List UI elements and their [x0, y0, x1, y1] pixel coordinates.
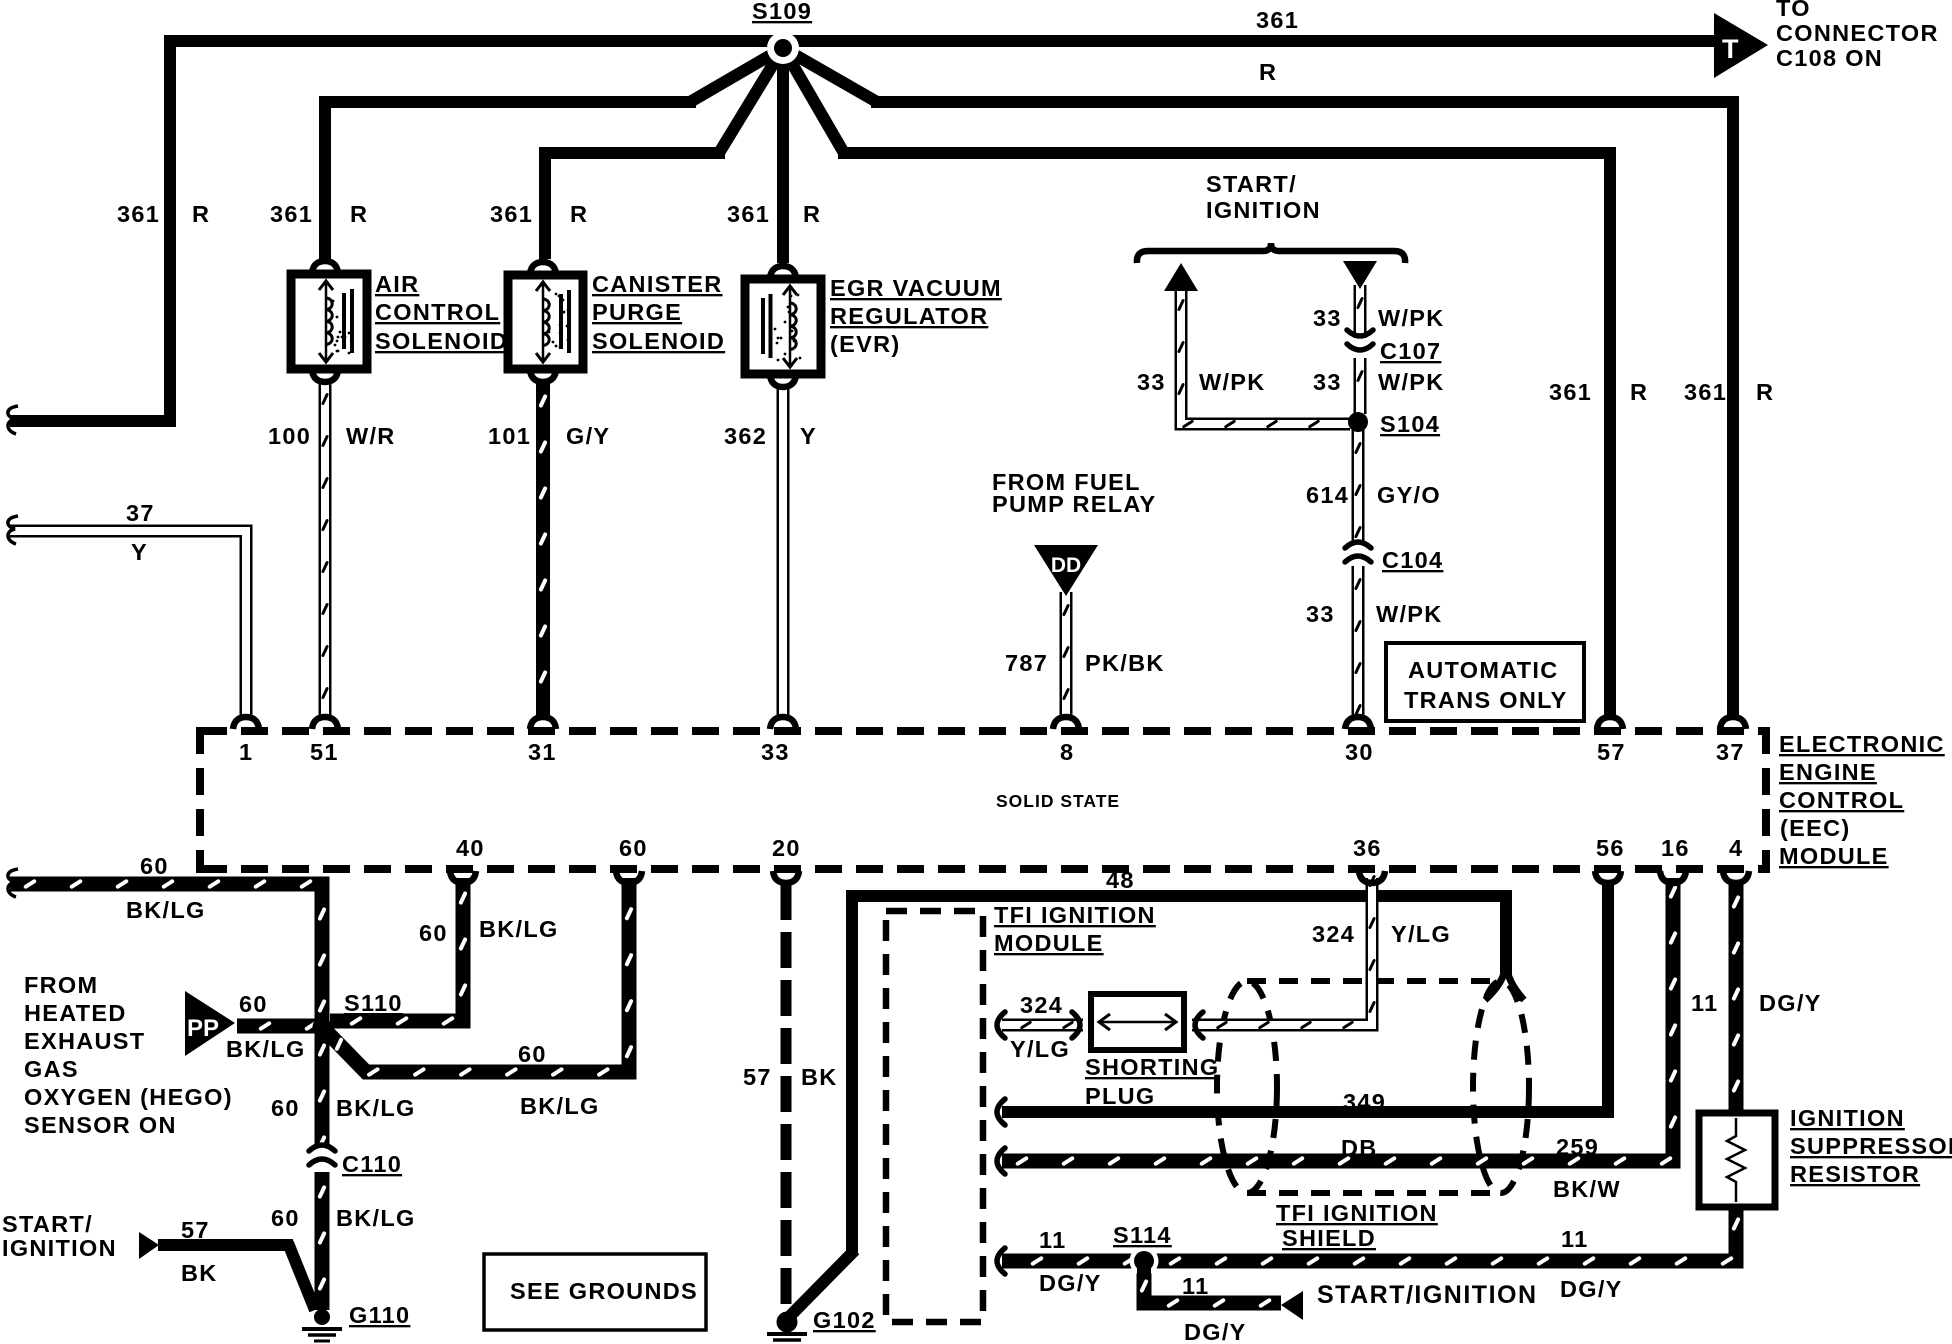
svg-text:Y: Y: [800, 423, 817, 449]
svg-text:R: R: [803, 201, 821, 227]
start/ignition arrow (bottom right): [1281, 1291, 1303, 1320]
wire 60 BK/LG from HEGO arrow PP to S110: [237, 1021, 318, 1032]
EEC pin 33 connector cup: [770, 717, 796, 729]
svg-text:DG/Y: DG/Y: [1560, 1276, 1623, 1302]
svg-text:AIR: AIR: [375, 271, 419, 297]
start/ignition arrow (bottom left): [139, 1232, 159, 1259]
svg-text:SHIELD: SHIELD: [1282, 1225, 1376, 1251]
svg-text:60: 60: [271, 1095, 300, 1121]
EEC pin 1 connector cup: [233, 717, 259, 729]
svg-text:DG/Y: DG/Y: [1039, 1270, 1102, 1296]
svg-text:361: 361: [270, 201, 313, 227]
wire 33 W/PK start/ignition to S104: [1177, 287, 1350, 429]
svg-text:DB: DB: [1341, 1135, 1378, 1161]
wire 324 Y/LG shorting plug to EEC pin 36: [1192, 874, 1376, 1029]
wire 361 R to air control solenoid: [690, 48, 783, 102]
svg-text:S104: S104: [1380, 411, 1440, 437]
svg-text:CONNECTOR: CONNECTOR: [1776, 20, 1939, 46]
EEC pin 8 connector cup: [1053, 717, 1079, 729]
svg-text:36: 36: [1353, 835, 1382, 861]
svg-text:361: 361: [727, 201, 770, 227]
wire 361 R left drop to off-page: [164, 35, 176, 427]
svg-text:IGNITION: IGNITION: [2, 1235, 117, 1261]
svg-text:GY/O: GY/O: [1377, 482, 1441, 508]
svg-text:361: 361: [1549, 379, 1592, 405]
wire 362 Y EVR to EEC pin 33: [777, 384, 790, 717]
svg-text:R: R: [1756, 379, 1774, 405]
EEC pin 37 connector cup: [1720, 717, 1746, 729]
wire 100 W/R solenoid to EEC pin 51: [321, 381, 329, 717]
EEC pin 51 connector cup: [312, 717, 338, 729]
off-page arrow T to connector C108: [1714, 13, 1768, 78]
svg-text:51: 51: [310, 739, 339, 765]
svg-text:324: 324: [1312, 921, 1355, 947]
air control solenoid box: [291, 274, 367, 369]
svg-text:48: 48: [1106, 867, 1135, 893]
svg-text:CANISTER: CANISTER: [592, 271, 723, 297]
svg-text:ELECTRONIC: ELECTRONIC: [1779, 731, 1945, 757]
svg-text:MODULE: MODULE: [994, 930, 1104, 956]
splice S110: [313, 1018, 332, 1037]
wire 60 BK/LG EEC pin 40 to S110: [330, 878, 468, 1026]
svg-text:W/PK: W/PK: [1378, 369, 1445, 395]
svg-text:SENSOR ON: SENSOR ON: [24, 1112, 177, 1138]
svg-text:SHORTING: SHORTING: [1085, 1054, 1219, 1080]
svg-text:31: 31: [528, 739, 557, 765]
EEC pin 31 connector cup: [530, 717, 556, 729]
EEC pin 16 connector cup: [1660, 871, 1686, 883]
wire 101 G/Y solenoid to EEC pin 31: [538, 381, 548, 717]
svg-text:33: 33: [761, 739, 790, 765]
TFI terminal wire 11: [997, 1248, 1005, 1274]
svg-text:8: 8: [1060, 739, 1074, 765]
svg-text:(EEC): (EEC): [1780, 815, 1850, 841]
svg-text:SEE GROUNDS: SEE GROUNDS: [510, 1278, 698, 1304]
wire 57 BK dashed EEC pin 20 to G102: [781, 884, 792, 1318]
wire 614 GY/O S104 to C104: [1354, 430, 1362, 545]
svg-text:S109: S109: [752, 0, 812, 24]
svg-text:G/Y: G/Y: [566, 423, 610, 449]
svg-text:60: 60: [239, 991, 268, 1017]
svg-text:R: R: [350, 201, 368, 227]
svg-text:PK/BK: PK/BK: [1085, 650, 1165, 676]
air control solenoid top terminal: [312, 261, 338, 273]
svg-text:PUMP RELAY: PUMP RELAY: [992, 491, 1157, 517]
wire 48 shield drain to G102: [1500, 890, 1512, 975]
svg-text:IGNITION: IGNITION: [1206, 197, 1321, 223]
svg-text:33: 33: [1313, 369, 1342, 395]
wire 37 Y to EEC pin 1: [10, 531, 246, 717]
svg-text:R: R: [192, 201, 210, 227]
TFI terminal wire DB: [997, 1148, 1005, 1174]
svg-text:1: 1: [239, 739, 253, 765]
svg-text:16: 16: [1661, 835, 1690, 861]
TFI terminal wire 324: [997, 1012, 1005, 1038]
svg-text:BK/LG: BK/LG: [336, 1205, 416, 1231]
svg-text:BK/LG: BK/LG: [520, 1093, 600, 1119]
wire 33 W/PK down arrow to C107: [1356, 285, 1364, 338]
start/ignition up arrow: [1164, 263, 1198, 291]
svg-text:START/: START/: [2, 1211, 93, 1237]
svg-text:SUPPRESSOR: SUPPRESSOR: [1790, 1133, 1952, 1159]
svg-text:C107: C107: [1380, 338, 1441, 364]
svg-text:57: 57: [181, 1217, 210, 1243]
svg-text:W/PK: W/PK: [1378, 305, 1445, 331]
svg-text:TO: TO: [1776, 0, 1811, 21]
svg-text:RESISTOR: RESISTOR: [1790, 1161, 1920, 1187]
svg-text:33: 33: [1306, 601, 1335, 627]
break symbol left end wire 60: [8, 869, 18, 897]
svg-text:259: 259: [1556, 1134, 1599, 1160]
wire 11 DG/Y EEC pin 4 to resistor: [1731, 882, 1741, 1116]
svg-text:W/PK: W/PK: [1199, 369, 1266, 395]
TFI terminal wire 349: [997, 1099, 1005, 1125]
wire 33 W/PK C107 to S104: [1356, 358, 1364, 414]
svg-text:IGNITION: IGNITION: [1790, 1105, 1905, 1131]
connector C104: [1345, 542, 1371, 548]
wire 60 BK/LG S110 to C110: [317, 1030, 327, 1149]
DD triangle from fuel pump relay: [1034, 545, 1098, 596]
svg-text:361: 361: [117, 201, 160, 227]
EEC pin 56 connector cup: [1595, 871, 1621, 883]
svg-text:362: 362: [724, 423, 767, 449]
EVR bottom terminal: [770, 375, 796, 387]
svg-text:TFI IGNITION: TFI IGNITION: [994, 902, 1156, 928]
svg-text:56: 56: [1596, 835, 1625, 861]
break symbol left end wire 37: [8, 516, 18, 544]
EEC pin 20 connector cup: [773, 871, 799, 883]
svg-text:START/: START/: [1206, 171, 1297, 197]
svg-text:BK/W: BK/W: [1553, 1176, 1621, 1202]
svg-text:324: 324: [1020, 992, 1063, 1018]
canister purge solenoid box: [508, 275, 583, 369]
svg-text:TRANS ONLY: TRANS ONLY: [1404, 687, 1568, 713]
svg-text:FROM: FROM: [24, 972, 98, 998]
EVR top terminal: [770, 266, 796, 278]
svg-text:DG/Y: DG/Y: [1759, 990, 1822, 1016]
EEC pin 57 connector cup: [1597, 717, 1623, 729]
EEC pin 40 connector cup: [450, 871, 476, 883]
splice S114: [1130, 1247, 1159, 1276]
ground G102: [777, 1312, 798, 1333]
svg-text:EXHAUST: EXHAUST: [24, 1028, 145, 1054]
svg-text:R: R: [1630, 379, 1648, 405]
svg-text:11: 11: [1561, 1226, 1588, 1252]
see grounds box: [484, 1254, 706, 1330]
svg-text:361: 361: [1684, 379, 1727, 405]
svg-text:SOLID STATE: SOLID STATE: [996, 791, 1120, 811]
svg-text:OXYGEN (HEGO): OXYGEN (HEGO): [24, 1084, 233, 1110]
svg-text:PURGE: PURGE: [592, 299, 682, 325]
start/ignition down arrow: [1343, 261, 1377, 289]
svg-text:W/PK: W/PK: [1376, 601, 1443, 627]
wire 361 R to EGR vacuum regulator: [777, 48, 789, 263]
start/ignition brace: [1137, 243, 1405, 263]
EEC pin 36 connector cup: [1359, 871, 1385, 883]
svg-text:60: 60: [619, 835, 648, 861]
wire 11 DG/Y resistor to S114 to TFI: [1002, 1204, 1741, 1266]
svg-text:4: 4: [1729, 835, 1743, 861]
EEC pin 4 connector cup: [1723, 871, 1749, 883]
wire DB / 259 BK/W TFI to EEC pin 16: [1002, 878, 1678, 1166]
svg-text:S110: S110: [344, 990, 403, 1016]
svg-text:BK/LG: BK/LG: [336, 1095, 416, 1121]
wire 361 R to EEC pin 57: [783, 48, 844, 153]
svg-text:G102: G102: [813, 1307, 876, 1333]
svg-text:GAS: GAS: [24, 1056, 79, 1082]
svg-text:C104: C104: [1382, 547, 1443, 573]
svg-text:EGR VACUUM: EGR VACUUM: [830, 275, 1002, 301]
wire 324 Y/LG TFI to shorting plug: [1002, 1020, 1083, 1029]
svg-text:G110: G110: [349, 1302, 410, 1328]
svg-text:100: 100: [268, 423, 311, 449]
connector C107: [1347, 330, 1373, 336]
svg-text:CONTROL: CONTROL: [1779, 787, 1904, 813]
wire 60 BK/LG from HEGO sensor: [10, 879, 327, 1024]
EEC pin 30 connector cup: [1345, 717, 1371, 729]
svg-text:33: 33: [1137, 369, 1166, 395]
svg-text:BK: BK: [801, 1064, 838, 1090]
wire 361 R to canister purge solenoid: [719, 48, 783, 153]
ignition suppressor resistor box: [1699, 1113, 1775, 1207]
shorting plug box: [1091, 994, 1184, 1050]
break symbol left end wire 361: [8, 406, 18, 434]
svg-text:BK: BK: [181, 1260, 218, 1286]
shorting plug right terminal: [1195, 1012, 1203, 1038]
svg-text:11: 11: [1691, 990, 1718, 1016]
svg-text:101: 101: [488, 423, 531, 449]
svg-text:37: 37: [1716, 739, 1745, 765]
svg-text:SOLENOID: SOLENOID: [375, 328, 508, 354]
wire 361 R top horizontal to connector C108: [170, 35, 1716, 47]
splice S109: [767, 32, 799, 64]
svg-text:BK/LG: BK/LG: [479, 916, 559, 942]
svg-text:11: 11: [1182, 1273, 1209, 1299]
svg-text:787: 787: [1005, 650, 1048, 676]
svg-text:PLUG: PLUG: [1085, 1083, 1155, 1109]
canister purge solenoid bottom terminal: [530, 370, 556, 382]
svg-text:60: 60: [419, 920, 448, 946]
svg-text:S114: S114: [1113, 1222, 1172, 1248]
wire 349 TFI to EEC pin 56: [1002, 1106, 1614, 1118]
air control solenoid bottom terminal: [312, 370, 338, 382]
ground G110: [314, 1309, 330, 1325]
wire 11 DG/Y S114 to start/ignition: [1139, 1266, 1281, 1308]
svg-text:SOLENOID: SOLENOID: [592, 328, 725, 354]
automatic trans only box: [1386, 643, 1584, 721]
svg-text:TFI IGNITION: TFI IGNITION: [1276, 1200, 1438, 1226]
TFI ignition module dashed box: [886, 911, 983, 1322]
svg-text:CONTROL: CONTROL: [375, 299, 500, 325]
svg-text:Y: Y: [131, 539, 148, 565]
svg-text:361: 361: [1256, 7, 1299, 33]
wire 361 R to EEC pin 37: [783, 48, 877, 102]
svg-text:BK/LG: BK/LG: [226, 1036, 306, 1062]
svg-text:ENGINE: ENGINE: [1779, 759, 1877, 785]
svg-text:20: 20: [772, 835, 801, 861]
flare where wire 48 meets shield: [1485, 964, 1506, 1000]
wire 60 BK/LG C110 to G110: [317, 1172, 327, 1310]
svg-text:PP: PP: [187, 1015, 219, 1042]
canister purge solenoid top terminal: [530, 262, 556, 274]
wire 33 W/PK C104 to EEC pin 30: [1354, 566, 1362, 717]
svg-text:37: 37: [126, 500, 155, 526]
svg-text:C108 ON: C108 ON: [1776, 45, 1883, 71]
svg-text:(EVR): (EVR): [830, 331, 900, 357]
svg-text:T: T: [1722, 34, 1739, 64]
wire 787 PK/BK fuel pump relay to EEC pin 8: [1062, 592, 1070, 717]
svg-text:DG/Y: DG/Y: [1184, 1319, 1247, 1344]
svg-text:57: 57: [743, 1064, 772, 1090]
svg-text:C110: C110: [342, 1151, 402, 1177]
svg-text:BK/LG: BK/LG: [126, 897, 206, 923]
svg-text:60: 60: [518, 1041, 547, 1067]
svg-text:R: R: [570, 201, 588, 227]
splice S104: [1348, 412, 1368, 432]
EEC module dashed border: [200, 727, 1766, 873]
svg-text:349: 349: [1343, 1089, 1386, 1115]
wire 57 BK start/ignition to G110: [158, 1239, 293, 1251]
svg-text:11: 11: [1039, 1227, 1066, 1253]
svg-text:40: 40: [456, 835, 485, 861]
wire 60 BK/LG S110 to EEC pin 60: [325, 878, 634, 1077]
svg-text:Y/LG: Y/LG: [1391, 921, 1451, 947]
EEC pin 60 connector cup: [616, 871, 642, 883]
svg-text:57: 57: [1597, 739, 1626, 765]
svg-text:Y/LG: Y/LG: [1010, 1036, 1070, 1062]
svg-text:361: 361: [490, 201, 533, 227]
shorting plug left terminal: [1072, 1012, 1080, 1038]
svg-text:30: 30: [1345, 739, 1374, 765]
svg-text:HEATED: HEATED: [24, 1000, 127, 1026]
EGR vacuum regulator (EVR) box: [745, 279, 821, 374]
svg-text:R: R: [1259, 59, 1277, 85]
svg-text:614: 614: [1306, 482, 1349, 508]
PP triangle from HEGO sensor: [185, 991, 235, 1056]
svg-text:60: 60: [140, 853, 169, 879]
svg-text:AUTOMATIC: AUTOMATIC: [1408, 657, 1559, 683]
svg-text:START/IGNITION: START/IGNITION: [1317, 1281, 1538, 1309]
svg-text:60: 60: [271, 1205, 300, 1231]
svg-text:REGULATOR: REGULATOR: [830, 303, 988, 329]
TFI ignition shield dashed cylinder: [1217, 981, 1529, 1193]
svg-text:DD: DD: [1051, 554, 1081, 577]
svg-text:33: 33: [1313, 305, 1342, 331]
svg-text:MODULE: MODULE: [1779, 843, 1889, 869]
svg-text:W/R: W/R: [346, 423, 396, 449]
connector C110: [309, 1145, 335, 1151]
